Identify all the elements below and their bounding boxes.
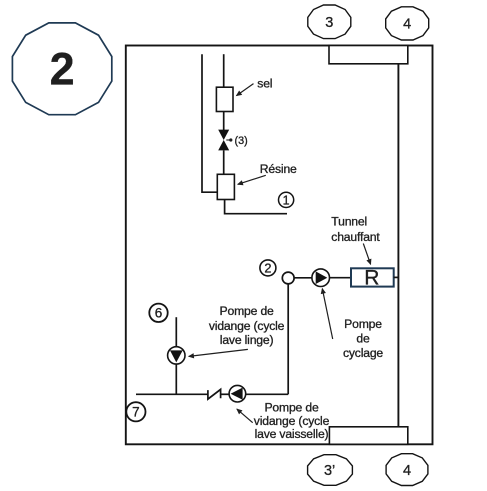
svg-text:Tunnel: Tunnel [331,214,367,228]
svg-text:6: 6 [155,306,163,321]
svg-text:Pompe de: Pompe de [264,400,319,414]
svg-text:4: 4 [403,17,411,33]
svg-text:Résine: Résine [260,162,297,176]
svg-text:cyclage: cyclage [343,346,383,360]
svg-text:vidange (cycle: vidange (cycle [254,414,330,428]
svg-text:2: 2 [264,260,271,275]
svg-text:2: 2 [50,44,75,95]
svg-text:3’: 3’ [324,463,335,479]
svg-text:Pompe: Pompe [344,317,382,331]
svg-text:7: 7 [132,405,140,420]
svg-text:3: 3 [325,15,333,31]
svg-text:1: 1 [283,193,290,207]
svg-text:(3): (3) [235,135,248,147]
svg-text:lave vaisselle): lave vaisselle) [255,427,329,441]
svg-text:vidange (cycle: vidange (cycle [209,319,285,333]
svg-text:4: 4 [403,463,411,479]
svg-text:chauffant: chauffant [331,230,380,244]
svg-text:lave linge): lave linge) [220,333,274,347]
svg-text:R: R [364,267,379,290]
svg-text:sel: sel [257,77,272,91]
svg-text:de: de [356,332,370,346]
svg-text:Pompe de: Pompe de [220,304,275,318]
